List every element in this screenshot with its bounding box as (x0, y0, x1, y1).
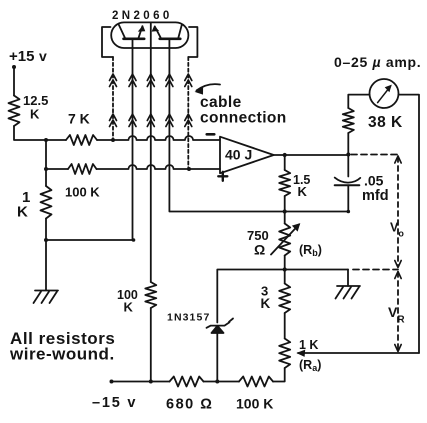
wire meter right to rail (399, 95, 420, 353)
svg-text:7 K: 7 K (68, 111, 90, 127)
wire (45, 219, 47, 241)
wire (13, 67, 15, 96)
transistor Q2 emitter (155, 27, 161, 38)
wire chain to 3K (284, 270, 286, 284)
svg-text:2N2060: 2N2060 (112, 10, 173, 22)
resistor R 12.5K (9, 96, 20, 127)
wire (45, 240, 47, 290)
svg-text:1 K: 1 K (299, 338, 318, 352)
node bottom of 1.5K (283, 209, 287, 213)
transistor 2N2060 package (111, 22, 188, 48)
dashed Vo arrow (397, 157, 399, 266)
node 38K output node (346, 153, 350, 157)
svg-text:K: K (17, 204, 28, 221)
wire junction to diode (217, 270, 284, 323)
svg-text:+15: +15 (9, 48, 34, 65)
wire lead3 lower (150, 308, 152, 382)
resistor 38K (343, 108, 354, 133)
wire cable lead 5 (dashed) (187, 57, 189, 169)
resistor 1.5K (279, 170, 290, 196)
resistor 1K (41, 186, 52, 219)
node wire1 tap (111, 138, 115, 142)
dashed mid level line (353, 269, 398, 271)
node -15V terminal (110, 380, 114, 384)
svg-text:mfd: mfd (362, 188, 389, 204)
svg-text:100 K: 100 K (65, 185, 100, 200)
wire (14, 126, 46, 140)
wire (45, 169, 47, 186)
resistor 100K feedback (46, 168, 68, 170)
svg-text:Ω: Ω (254, 242, 265, 258)
svg-text:v: v (39, 48, 47, 64)
svg-text:VR: VR (388, 304, 405, 326)
wire junction to ground right (285, 269, 348, 271)
label plus (218, 172, 227, 181)
svg-text:0–25 µ amp.: 0–25 µ amp. (334, 54, 421, 70)
svg-text:1N3157: 1N3157 (167, 312, 210, 324)
wire (284, 313, 286, 339)
wire package right hook (188, 27, 197, 57)
node wire5 tap (187, 167, 191, 171)
svg-text:connection: connection (200, 110, 287, 127)
cable connection pointer arrow (197, 84, 221, 90)
wire wiper rail to Ra (298, 352, 419, 354)
svg-text:100 K: 100 K (236, 396, 273, 412)
node +15V terminal (12, 65, 16, 69)
wire chain below (284, 212, 286, 224)
resistor 7K wire with hops (46, 139, 66, 141)
node C junction (44, 238, 48, 242)
node B junction (44, 167, 48, 171)
transistor Q2 base bar (160, 37, 181, 40)
resistor 100K bottom (239, 377, 273, 387)
wire (284, 196, 286, 212)
wire bottom rail (112, 381, 170, 383)
label minus (207, 133, 214, 136)
svg-text:K: K (298, 184, 308, 199)
svg-text:Vo: Vo (390, 221, 404, 239)
wire package left hook (102, 27, 113, 57)
wire minus-input with hops (97, 136, 220, 140)
dashed Vo level line (351, 154, 397, 156)
wire output (274, 154, 349, 156)
potentiometer Rb 750 ohm (279, 224, 290, 256)
svg-text:(Rb): (Rb) (299, 243, 322, 258)
wire up to 38K (347, 133, 349, 155)
svg-text:680 Ω: 680 Ω (166, 397, 213, 413)
meter needle (378, 87, 390, 102)
svg-text:K: K (261, 296, 271, 311)
wire cable lead 4 (169, 40, 348, 212)
ground left (34, 291, 59, 304)
svg-text:–15 v: –15 v (92, 395, 137, 411)
capacitor C1 .05 mfd (347, 155, 349, 177)
wire (348, 95, 369, 108)
node rail lead3 junction (149, 380, 153, 384)
potentiometer Ra 1K (279, 339, 290, 369)
svg-text:K: K (124, 300, 134, 315)
svg-text:.05: .05 (364, 173, 384, 189)
wire cable lead 1 (dashed) (112, 57, 114, 140)
wire cable lead 3 (150, 22, 152, 282)
node diode rail junction (215, 380, 219, 384)
resistor 680 ohm (170, 377, 204, 387)
transistor Q2 collector (178, 25, 181, 38)
diode D1 1N3157 zener (212, 326, 224, 333)
svg-text:K: K (30, 107, 40, 122)
wire Ra to rail (273, 368, 285, 382)
wire (284, 256, 286, 270)
resistor 100K vertical (145, 282, 156, 308)
wire (204, 381, 240, 383)
node chain junction (283, 267, 287, 271)
node output junction (283, 153, 287, 157)
transistor Q1 base bar (124, 37, 145, 40)
cable connector chevrons (110, 74, 192, 127)
transistor Q1 emitter (139, 26, 143, 38)
svg-text:38 K: 38 K (368, 114, 403, 131)
wire cable lead 2 (132, 40, 134, 241)
svg-text:(Ra): (Ra) (299, 358, 321, 373)
node A junction (44, 138, 48, 142)
op-amp U1 40J (220, 137, 274, 174)
svg-text:40 J: 40 J (225, 147, 252, 163)
ground right (336, 286, 361, 299)
node wire2 tap (132, 238, 136, 242)
svg-text:wire-wound.: wire-wound. (9, 345, 115, 364)
transistor Q1 collector (119, 25, 125, 39)
wire to feedback (46, 239, 134, 241)
svg-text:cable: cable (200, 94, 242, 111)
meter M1 (370, 79, 399, 108)
wire (45, 140, 47, 169)
wire plus-input with hops (97, 165, 190, 169)
wire (284, 155, 286, 170)
resistor 3K (279, 284, 290, 314)
dashed VR arrow (397, 272, 399, 350)
wire diode to rail (216, 333, 218, 382)
